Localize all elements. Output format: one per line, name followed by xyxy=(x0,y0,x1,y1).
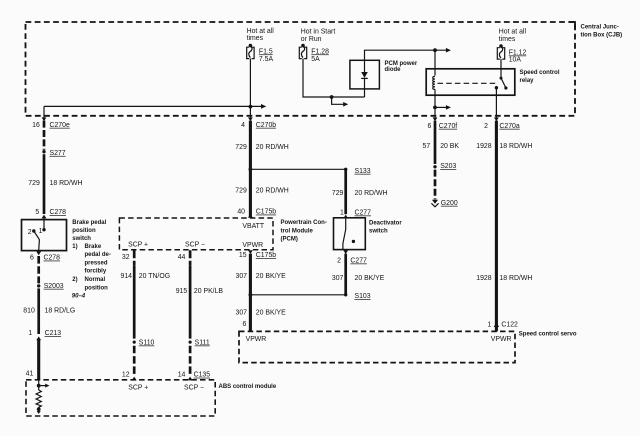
svg-text:trol Module: trol Module xyxy=(281,228,314,234)
node junction at relay coil feed xyxy=(433,48,437,52)
svg-text:S111: S111 xyxy=(195,340,210,347)
svg-text:1928: 1928 xyxy=(476,275,491,282)
wire diode cathode to relay coil and page arrow xyxy=(365,50,447,60)
svg-text:relay: relay xyxy=(520,78,535,84)
svg-text:18 RD/WH: 18 RD/WH xyxy=(499,143,532,150)
svg-text:F1.5: F1.5 xyxy=(259,48,273,55)
svg-text:position: position xyxy=(72,228,96,234)
svg-text:1: 1 xyxy=(39,228,43,235)
svg-text:SCP +: SCP + xyxy=(128,385,148,392)
Powertrain Control Module (PCM) dashed box xyxy=(119,218,273,250)
svg-text:1: 1 xyxy=(340,210,344,217)
fuse F1.12 xyxy=(497,48,504,59)
svg-text:times: times xyxy=(247,35,264,42)
svg-text:915: 915 xyxy=(176,288,188,295)
svg-text:2: 2 xyxy=(484,123,488,130)
svg-text:4: 4 xyxy=(241,122,245,129)
svg-text:16: 16 xyxy=(32,122,40,129)
svg-text:44: 44 xyxy=(178,254,186,261)
svg-text:Hot at all: Hot at all xyxy=(499,29,527,36)
svg-text:Brake pedal: Brake pedal xyxy=(72,220,106,226)
wire into relay coil xyxy=(434,50,436,75)
svg-text:6: 6 xyxy=(30,255,34,262)
svg-text:10A: 10A xyxy=(509,57,522,64)
ground G200 xyxy=(432,200,438,204)
svg-text:diode: diode xyxy=(385,67,402,73)
svg-text:90–4: 90–4 xyxy=(72,293,86,299)
brake pedal position switch box xyxy=(22,220,67,251)
svg-text:729: 729 xyxy=(332,190,344,197)
node battery feed terminal of F1.5 xyxy=(249,44,253,48)
svg-text:tion Box (CJB): tion Box (CJB) xyxy=(581,33,623,39)
svg-text:ABS control module: ABS control module xyxy=(219,384,277,390)
switch blade xyxy=(34,231,40,251)
svg-text:F1.28: F1.28 xyxy=(311,48,329,55)
svg-text:15: 15 xyxy=(239,252,247,259)
svg-text:2: 2 xyxy=(337,258,341,265)
wire 729 20 RD/WH to PCM VBATT xyxy=(249,121,252,218)
svg-text:6: 6 xyxy=(243,321,247,328)
svg-text:SCP −: SCP − xyxy=(184,385,204,392)
svg-text:Brake: Brake xyxy=(85,244,102,250)
node junction with page arrow xyxy=(37,384,41,388)
connector C278 pin 6 xyxy=(36,251,41,255)
splice S2003 xyxy=(37,284,40,287)
svg-text:pedal de-: pedal de- xyxy=(85,252,111,258)
svg-text:57: 57 xyxy=(423,143,431,150)
wire dashed C278 to S2003 xyxy=(37,256,40,283)
svg-text:C175b: C175b xyxy=(256,209,276,216)
svg-text:Central Junc-: Central Junc- xyxy=(581,25,619,31)
wire pin 41 into module xyxy=(38,380,40,390)
wire dashed S203 to G200 xyxy=(434,170,437,200)
svg-text:20 TN/OG: 20 TN/OG xyxy=(139,273,170,280)
svg-text:S203: S203 xyxy=(440,163,456,170)
svg-text:C213: C213 xyxy=(45,330,62,337)
PCM power diode box xyxy=(350,60,380,89)
wire F1.12 down to relay switch xyxy=(500,59,502,69)
svg-text:C175b: C175b xyxy=(256,252,276,259)
svg-text:S103: S103 xyxy=(355,293,371,300)
wire coil to C270f xyxy=(434,89,436,117)
svg-text:14: 14 xyxy=(178,372,186,379)
svg-text:1: 1 xyxy=(28,330,32,337)
node junction below coil xyxy=(433,106,437,110)
svg-text:C270b: C270b xyxy=(256,122,276,129)
svg-text:18 RD/WH: 18 RD/WH xyxy=(499,275,532,282)
svg-text:times: times xyxy=(499,36,516,43)
wire F1.28 to diode anode xyxy=(303,59,365,98)
svg-text:S277: S277 xyxy=(50,150,66,157)
svg-text:307: 307 xyxy=(236,310,248,317)
svg-text:Normal: Normal xyxy=(85,277,106,283)
connector C277 pin 2 xyxy=(343,250,348,254)
node battery feed terminal of F1.12 xyxy=(499,44,503,48)
svg-text:VPWR: VPWR xyxy=(246,336,267,343)
svg-text:32: 32 xyxy=(122,254,130,261)
svg-text:Speed control: Speed control xyxy=(520,70,560,76)
splice S133 xyxy=(344,168,347,171)
wire C213 to ABS pin 41 xyxy=(37,340,40,380)
wire branch to S133 xyxy=(250,168,345,170)
svg-text:1: 1 xyxy=(488,322,492,329)
svg-text:729: 729 xyxy=(235,144,247,151)
splice S111 xyxy=(189,341,192,344)
wire stub page arrow below coil xyxy=(435,106,446,108)
svg-text:VBATT: VBATT xyxy=(242,223,264,230)
svg-text:position: position xyxy=(85,285,109,291)
svg-text:729: 729 xyxy=(235,188,247,195)
deactivator switch box xyxy=(334,218,366,250)
connector C270a pin 2 xyxy=(494,117,499,121)
wire dashed S110 to ABS pin 12 xyxy=(133,346,136,377)
wire into switch contact 1 xyxy=(43,218,45,229)
svg-text:20 BK: 20 BK xyxy=(440,143,459,150)
svg-text:20 BK/YE: 20 BK/YE xyxy=(355,275,385,282)
connector C270f pin 6 xyxy=(433,117,438,121)
splice S203 xyxy=(433,165,436,168)
svg-text:Deactivator: Deactivator xyxy=(369,221,402,227)
svg-text:20 BK/YE: 20 BK/YE xyxy=(256,273,286,280)
svg-text:VPWR: VPWR xyxy=(242,242,263,249)
svg-text:6: 6 xyxy=(428,123,432,130)
svg-text:S133: S133 xyxy=(355,168,371,175)
svg-text:2: 2 xyxy=(28,229,32,236)
svg-text:18 RD/LG: 18 RD/LG xyxy=(45,307,76,314)
svg-text:12: 12 xyxy=(122,372,130,379)
svg-text:SCP +: SCP + xyxy=(128,241,148,248)
splice S277 xyxy=(42,150,45,153)
svg-text:1): 1) xyxy=(72,244,77,250)
svg-text:20 RD/WH: 20 RD/WH xyxy=(355,190,388,197)
svg-text:914: 914 xyxy=(121,273,133,280)
svg-text:S2003: S2003 xyxy=(44,283,64,290)
svg-text:S110: S110 xyxy=(139,340,155,347)
svg-text:Hot at all: Hot at all xyxy=(247,28,275,35)
connector C270e pin 16 xyxy=(42,117,47,121)
svg-text:C277: C277 xyxy=(355,210,372,217)
wire 810 18 RD/LG xyxy=(37,288,40,334)
svg-text:G200: G200 xyxy=(441,200,458,207)
Speed control servo dashed box xyxy=(239,331,515,362)
connector C175b pin 15 xyxy=(248,250,253,254)
diode symbol xyxy=(364,60,366,72)
wire 914 20 TN/OG xyxy=(133,250,136,266)
svg-text:or Run: or Run xyxy=(301,36,322,43)
svg-text:1928: 1928 xyxy=(476,143,491,150)
node fixed contact xyxy=(352,240,355,243)
svg-text:forcibly: forcibly xyxy=(85,269,107,275)
svg-text:307: 307 xyxy=(332,275,344,282)
svg-text:VPWR: VPWR xyxy=(491,336,512,343)
svg-text:5: 5 xyxy=(35,209,39,216)
svg-text:Powertrain Con-: Powertrain Con- xyxy=(281,220,327,226)
node junction to S133 branch xyxy=(249,167,253,171)
wire dashed C270e to S277 xyxy=(43,121,46,150)
svg-text:41: 41 xyxy=(26,371,34,378)
svg-text:C278: C278 xyxy=(50,209,67,216)
svg-text:20 RD/WH: 20 RD/WH xyxy=(256,188,289,195)
Central Junction Box (CJB) dashed boundary xyxy=(26,22,576,116)
node junction to S103 branch xyxy=(249,293,253,297)
relay coil xyxy=(433,76,435,89)
splice S103 xyxy=(344,293,347,296)
svg-text:2): 2) xyxy=(72,277,77,283)
wire 729 18 RD/WH xyxy=(43,154,46,214)
wire bus from C270e to F1.5 with page arrow xyxy=(44,105,262,107)
node junction on F1.28 run xyxy=(330,95,334,99)
svg-text:SCP −: SCP − xyxy=(185,241,205,248)
svg-text:20 RD/WH: 20 RD/WH xyxy=(256,144,289,151)
wire dashed S111 to ABS pin 14 xyxy=(189,346,192,377)
wire branch S103 xyxy=(250,294,345,296)
svg-text:C270f: C270f xyxy=(439,123,457,130)
svg-text:40: 40 xyxy=(237,209,245,216)
fuse F1.28 xyxy=(299,47,306,58)
connector C270b pin 4 xyxy=(248,117,253,121)
speed control relay box xyxy=(426,69,515,95)
svg-text:810: 810 xyxy=(23,307,35,314)
wire 1928 18 RD/WH to servo xyxy=(495,121,498,332)
svg-text:C122: C122 xyxy=(501,322,518,329)
wire stub to page arrow xyxy=(332,97,344,104)
svg-text:729: 729 xyxy=(28,180,40,187)
wire 915 20 PK/LB xyxy=(189,250,192,266)
ABS control module dashed box xyxy=(26,380,215,416)
svg-text:switch: switch xyxy=(72,236,91,242)
fuse F1.5 xyxy=(247,47,254,58)
svg-text:5A: 5A xyxy=(311,56,320,63)
wire 729 20 RD/WH to deactivator xyxy=(344,169,347,214)
node junction bus / F1.5 wire xyxy=(249,105,253,109)
wire 307 20 BK/YE to servo xyxy=(249,254,252,332)
node contact 1 xyxy=(42,228,45,231)
resistor in ABS module xyxy=(36,390,41,408)
svg-text:C270a: C270a xyxy=(499,123,519,130)
wire F1.5 down to C270b xyxy=(249,59,251,118)
relay linkage dashed xyxy=(438,82,498,84)
svg-text:307: 307 xyxy=(236,273,248,280)
svg-text:pressed: pressed xyxy=(85,260,108,266)
switch blade xyxy=(343,218,346,249)
svg-text:20 PK/LB: 20 PK/LB xyxy=(194,288,224,295)
relay switch blade xyxy=(501,69,506,88)
svg-text:Speed control servo: Speed control servo xyxy=(519,332,577,338)
svg-text:20 BK/YE: 20 BK/YE xyxy=(256,310,286,317)
termination node xyxy=(37,407,41,411)
wire 307 20 BK/YE to S103 xyxy=(344,254,347,295)
wire contact to C270a xyxy=(495,88,497,118)
svg-text:18 RD/WH: 18 RD/WH xyxy=(50,180,83,187)
svg-text:(PCM): (PCM) xyxy=(281,237,298,243)
splice S110 xyxy=(133,341,136,344)
relay contact node xyxy=(495,86,498,89)
svg-text:C278: C278 xyxy=(44,255,61,262)
svg-text:7.5A: 7.5A xyxy=(259,56,274,63)
wire 57 20 BK xyxy=(434,121,437,164)
wire C270e drop xyxy=(43,106,45,117)
svg-text:F1.12: F1.12 xyxy=(509,50,527,57)
svg-text:C135: C135 xyxy=(194,372,211,379)
svg-text:Hot in Start: Hot in Start xyxy=(301,28,336,35)
wire diode bottom stub xyxy=(364,89,366,97)
svg-text:C277: C277 xyxy=(350,258,367,265)
svg-text:switch: switch xyxy=(369,229,388,235)
node contact 2 xyxy=(32,229,35,232)
svg-text:C270e: C270e xyxy=(50,122,70,129)
node battery feed terminal of F1.28 xyxy=(301,44,305,48)
